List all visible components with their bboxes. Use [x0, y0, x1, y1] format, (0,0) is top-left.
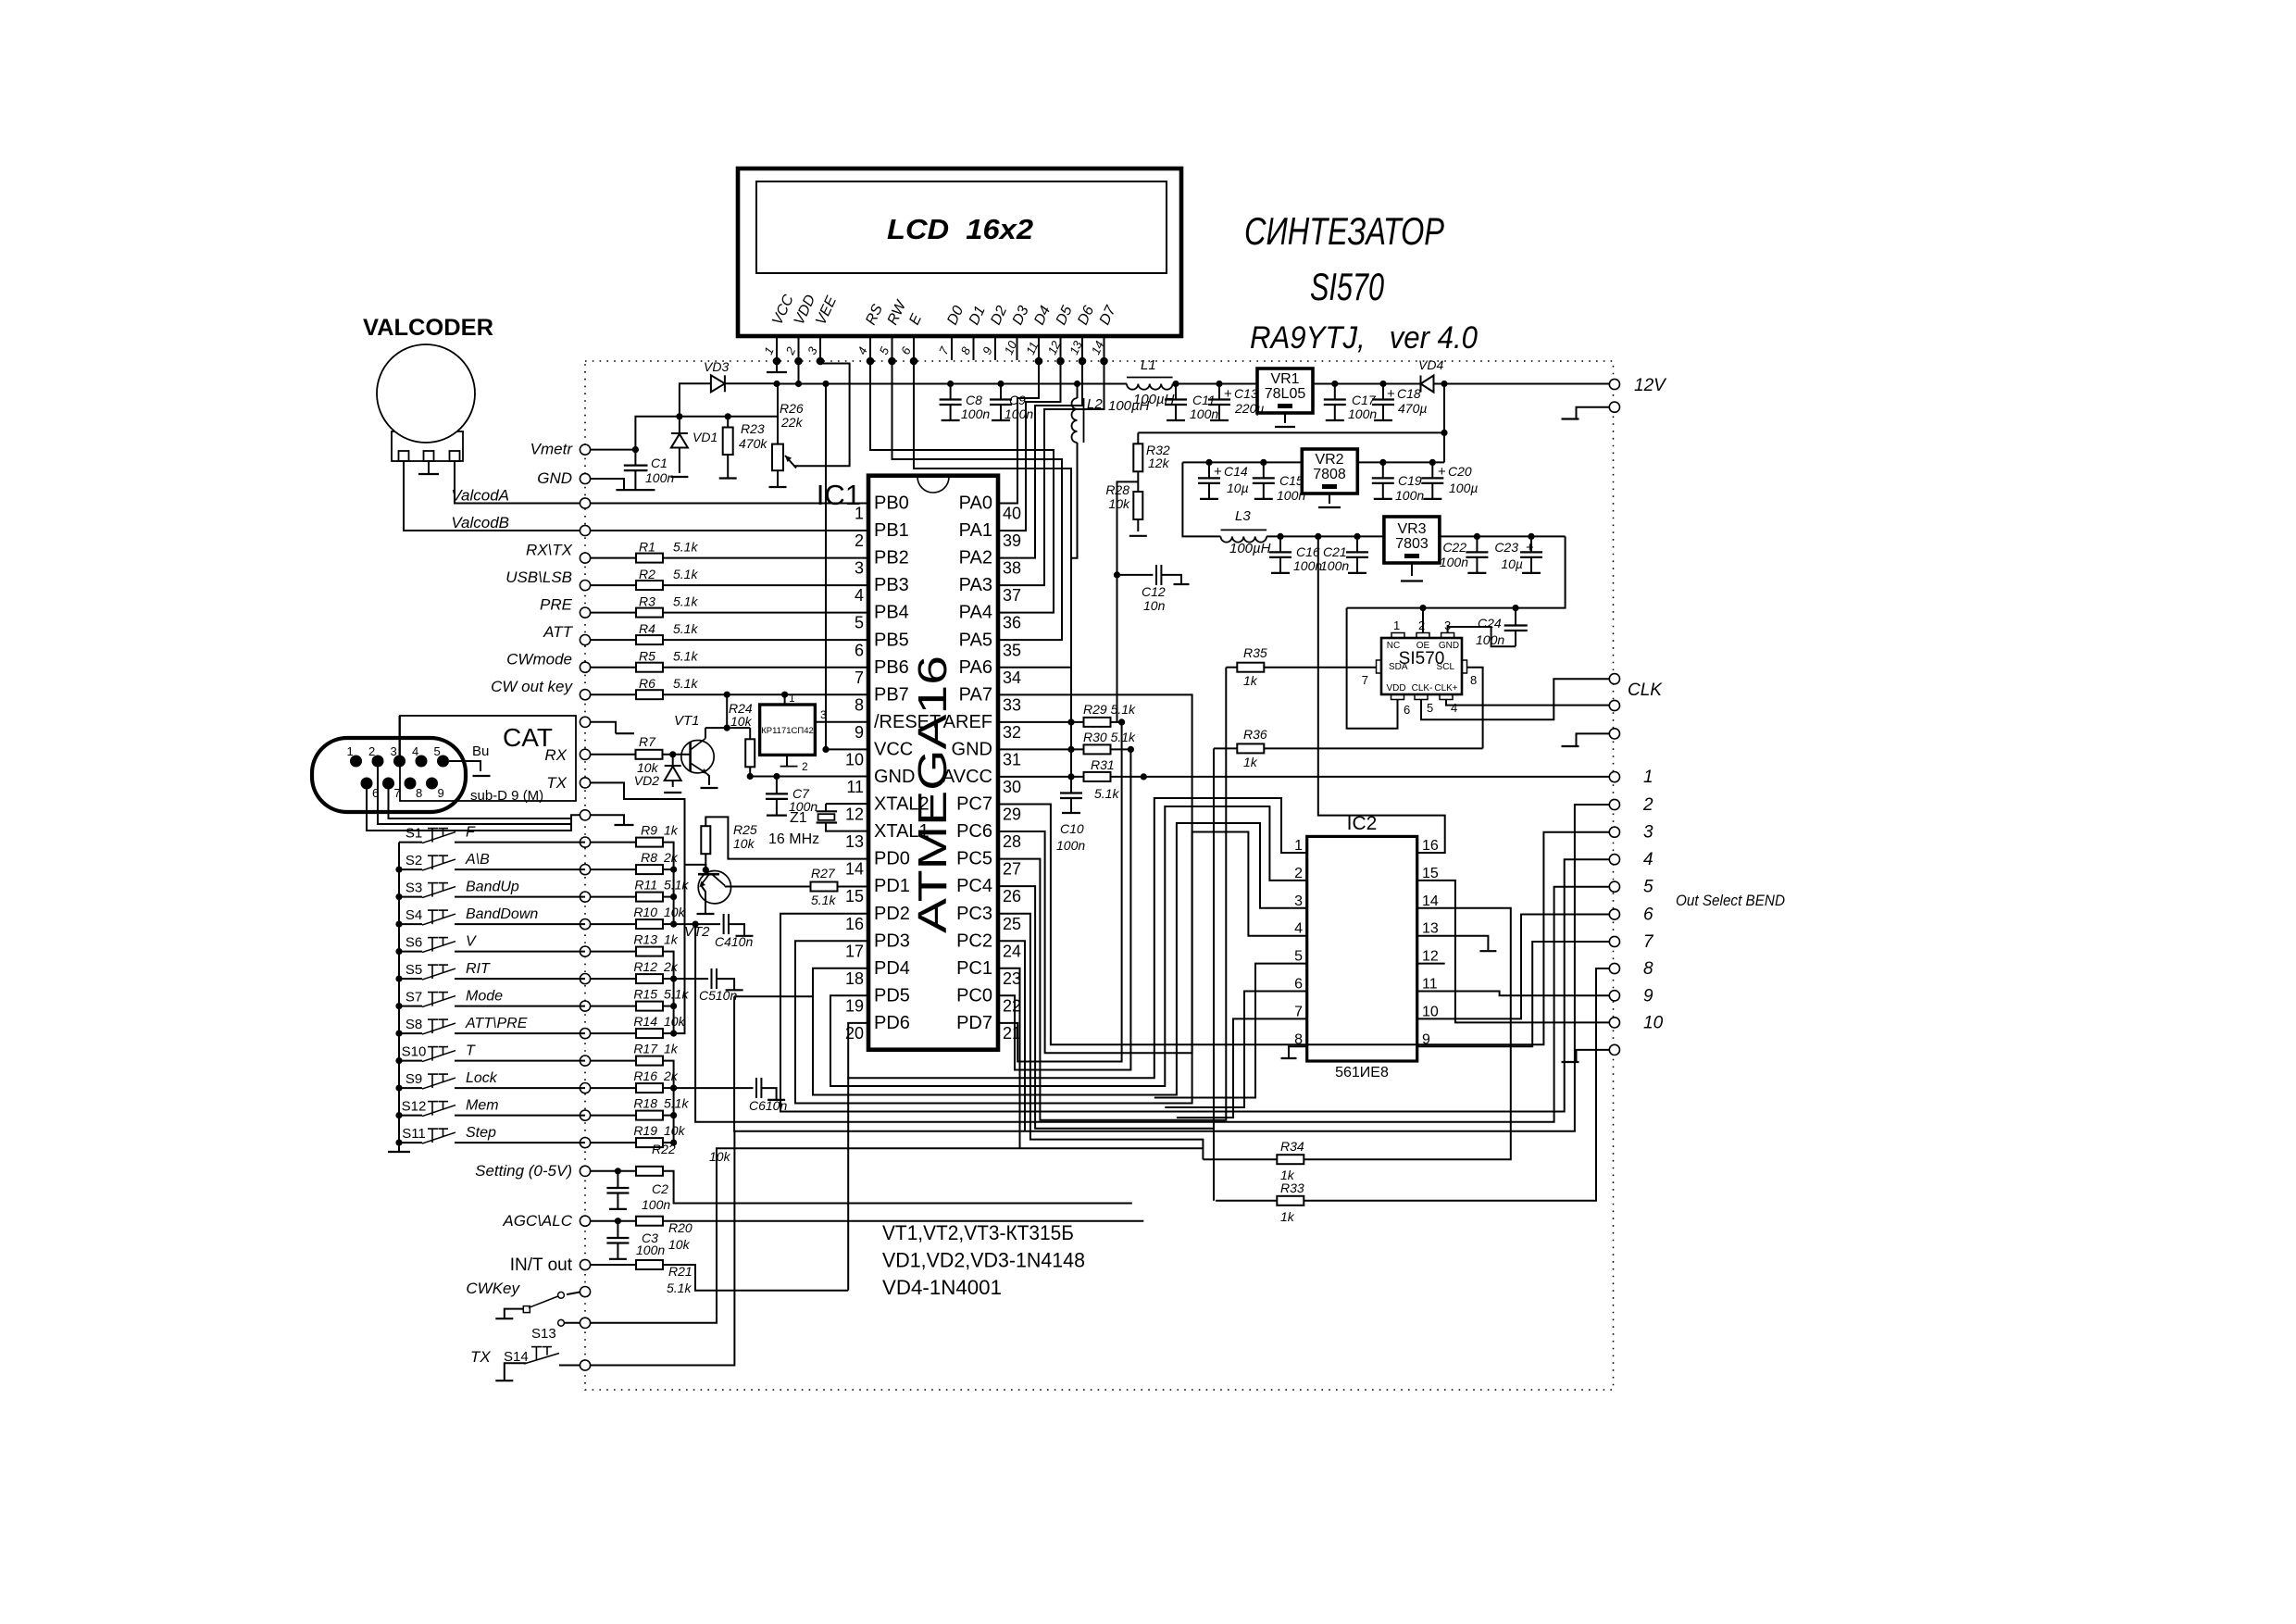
svg-text:S9: S9: [406, 1071, 422, 1087]
terminal 880 ground: [591, 815, 624, 825]
SI570 SCL pin8 wire: [1467, 668, 1483, 749]
svg-text:10µ: 10µ: [1501, 556, 1523, 571]
transistor VT1: [681, 741, 714, 773]
resistor R5 5.1k: [591, 667, 636, 668]
svg-text:R3: R3: [639, 594, 655, 609]
svg-text:VD4-1N4001: VD4-1N4001: [882, 1276, 1002, 1299]
resistor R16 2k: [591, 1087, 636, 1089]
svg-text:13: 13: [845, 832, 864, 851]
svg-text:PD3: PD3: [874, 931, 910, 951]
svg-text:R5: R5: [639, 649, 655, 664]
wire GND terminal to C1 ground: [591, 479, 624, 490]
wire +5 to IC1 VCC pin10: [826, 384, 868, 750]
svg-text:2: 2: [1642, 795, 1653, 815]
keyboard bus segment 2: [663, 952, 674, 1034]
svg-text:LCD 16x2: LCD 16x2: [887, 213, 1033, 245]
SI570 pin stubs: [1391, 633, 1404, 639]
svg-text:15: 15: [1422, 866, 1439, 881]
capacitor C18 470u electrolytic: [1382, 384, 1384, 400]
L3 output rail: [1267, 535, 1384, 537]
wire LCD D7 to PA3: [998, 361, 1104, 585]
svg-text:3: 3: [855, 559, 864, 578]
svg-text:S2: S2: [406, 853, 422, 868]
wire PD7 to R29 band: [998, 722, 1122, 1062]
svg-text:R29 5.1k: R29 5.1k: [1083, 702, 1136, 717]
svg-text:S6: S6: [406, 935, 422, 951]
wire PC0 to R30 band: [998, 749, 1130, 1069]
VR2 input rail: [1182, 461, 1302, 463]
svg-text:R13: R13: [633, 932, 657, 947]
capacitor C14 10u electrolytic: [1208, 462, 1210, 478]
SI570 OE to rail: [1422, 608, 1424, 633]
svg-text:2: 2: [368, 744, 375, 758]
svg-text:100n: 100n: [1395, 488, 1424, 503]
keyboard bus segment 3: [663, 1061, 674, 1143]
svg-text:5: 5: [434, 744, 441, 758]
svg-text:3: 3: [391, 744, 397, 758]
SI570 GND pin3 wire: [1448, 627, 1516, 646]
resistor R12 2k: [591, 978, 636, 980]
svg-text:VCC: VCC: [874, 739, 913, 759]
svg-text:S1: S1: [406, 826, 422, 842]
svg-text:100n: 100n: [636, 1243, 665, 1257]
svg-text:9: 9: [855, 723, 864, 742]
IC2 pin16 power wire: [1318, 536, 1445, 853]
svg-text:1k: 1k: [664, 1042, 679, 1056]
terminal 9: [1609, 991, 1619, 1001]
svg-text:100n: 100n: [1190, 406, 1218, 421]
svg-text:R12: R12: [633, 959, 657, 974]
wire PA7 to nest: [998, 694, 1192, 1053]
svg-text:100µH: 100µH: [1108, 398, 1150, 414]
switch bus ground: [388, 1151, 410, 1153]
svg-text:100n: 100n: [1348, 406, 1377, 421]
svg-text:PD0: PD0: [874, 849, 910, 869]
resistor R30 5.1k: [998, 748, 1084, 750]
svg-text:7: 7: [855, 668, 864, 687]
svg-text:R9: R9: [641, 823, 657, 838]
crystal Z1 16 MHz: [826, 803, 868, 805]
svg-text:R18: R18: [633, 1096, 657, 1111]
IC2 pin12 stub: [1417, 963, 1445, 965]
svg-text:AGC\ALC: AGC\ALC: [502, 1212, 572, 1230]
svg-text:100n: 100n: [1320, 558, 1349, 573]
svg-text:/RESET: /RESET: [874, 712, 941, 732]
svg-text:PB0: PB0: [874, 493, 909, 514]
svg-text:ValcodB: ValcodB: [451, 514, 509, 531]
capacitor C16 100n: [1279, 536, 1281, 552]
IC2 pin13 ground: [1417, 936, 1489, 950]
svg-text:C510n: C510n: [699, 988, 737, 1003]
svg-text:100n: 100n: [1004, 406, 1033, 421]
svg-text:PB4: PB4: [874, 603, 909, 623]
svg-text:TX: TX: [470, 1348, 491, 1366]
junction VT2 base: [703, 867, 709, 873]
svg-text:S8: S8: [406, 1017, 422, 1032]
capacitor C9 100n: [1000, 384, 1002, 400]
svg-text:3: 3: [1643, 823, 1653, 843]
wire TX band to terminal 2: [734, 995, 813, 997]
svg-text:PB6: PB6: [874, 657, 909, 678]
svg-text:10k: 10k: [709, 1149, 731, 1164]
wire LCD E to PA6: [914, 361, 1071, 668]
resistor R35 1k: [1226, 667, 1237, 668]
wire PD4 to IC2 pin3: [813, 823, 1307, 1095]
svg-text:Step: Step: [466, 1125, 496, 1141]
svg-text:PC0: PC0: [956, 985, 992, 1006]
capacitor C10 100n: [1070, 777, 1072, 793]
terminal 10: [1609, 1018, 1619, 1028]
svg-text:2k: 2k: [663, 959, 679, 974]
svg-text:PD4: PD4: [874, 958, 910, 979]
wire PD5 to IC2 pin2: [830, 806, 1307, 1086]
wire ValcodB to PB1: [591, 530, 868, 531]
KP1171 pin3 wire to /RESET: [815, 721, 868, 723]
svg-text:R7: R7: [639, 734, 656, 749]
terminal CLK lower: [1609, 700, 1619, 710]
svg-text:1: 1: [1393, 618, 1400, 632]
transistor VT2: [698, 871, 730, 904]
svg-text:C13: C13: [1234, 386, 1258, 401]
svg-text:100n: 100n: [961, 406, 990, 421]
svg-text:R36: R36: [1243, 727, 1267, 742]
wire PD3 to IC2 pin4: [795, 832, 1307, 1104]
wire keypad bus to terminal 5: [695, 887, 1609, 1122]
svg-text:34: 34: [1003, 668, 1021, 687]
svg-text:R22: R22: [652, 1142, 676, 1156]
svg-text:9: 9: [438, 786, 444, 800]
svg-text:XTAL2: XTAL2: [874, 794, 930, 815]
resistor R7 10k: [591, 754, 636, 756]
svg-text:R1: R1: [639, 540, 655, 555]
wire LCD RS to PA4: [870, 361, 1054, 613]
svg-text:12V: 12V: [1634, 376, 1667, 395]
SI570 VDD pin6 wire: [1347, 608, 1398, 729]
svg-text:10k: 10k: [733, 836, 755, 851]
svg-text:C8: C8: [966, 393, 982, 407]
svg-text:27: 27: [1003, 860, 1021, 879]
svg-text:100n: 100n: [642, 1197, 670, 1212]
voltage regulator VR3 7803: [1384, 517, 1440, 563]
inductor L2 100uH vertical: [1072, 398, 1078, 443]
terminal 1: [1609, 772, 1619, 782]
diode VD1: [679, 417, 680, 433]
svg-text:13: 13: [1422, 921, 1439, 937]
12V feed down: [1443, 384, 1445, 463]
svg-text:CLK+: CLK+: [1434, 683, 1457, 693]
svg-text:Lock: Lock: [466, 1070, 498, 1086]
terminal 780 ground: [591, 722, 616, 733]
svg-text:32: 32: [1003, 723, 1021, 742]
valcoder middle lug ground: [428, 461, 430, 474]
IC1 ATMEGA16 box: [868, 476, 998, 1050]
svg-text:USB\LSB: USB\LSB: [505, 568, 572, 586]
svg-text:S10: S10: [402, 1044, 427, 1060]
svg-text:10k: 10k: [664, 905, 686, 919]
svg-text:7: 7: [1294, 1004, 1303, 1019]
terminal CLK upper: [1609, 674, 1619, 684]
svg-text:4: 4: [1294, 921, 1303, 937]
svg-text:35: 35: [1003, 641, 1021, 659]
terminal 6: [1609, 909, 1619, 919]
svg-text:10k: 10k: [1108, 496, 1130, 511]
svg-text:C22: C22: [1442, 540, 1466, 555]
resistor R36 1k: [1214, 747, 1237, 749]
svg-text:PD2: PD2: [874, 904, 910, 924]
svg-text:1k: 1k: [664, 932, 679, 947]
svg-text:C20: C20: [1448, 464, 1472, 479]
svg-text:СИНТЕЗАТОР: СИНТЕЗАТОР: [1244, 209, 1444, 253]
svg-text:29: 29: [1003, 806, 1021, 824]
junction R7-VD2: [669, 751, 676, 757]
divider tap to AREF chain: [1117, 481, 1139, 722]
terminal 2: [1609, 799, 1619, 809]
svg-text:6: 6: [855, 641, 864, 659]
terminal 8: [1609, 963, 1619, 973]
svg-text:+: +: [1526, 540, 1534, 556]
wire VT1 collector rail: [705, 727, 750, 729]
svg-text:BandDown: BandDown: [466, 906, 538, 922]
resistor R3 5.1k: [591, 612, 636, 614]
resistor R10 10k: [591, 923, 636, 925]
svg-text:XTAL1: XTAL1: [874, 821, 930, 842]
wire valcoder left lug to ValcodB: [404, 461, 585, 531]
svg-text:SDA: SDA: [1389, 662, 1408, 672]
svg-text:40: 40: [1003, 505, 1021, 523]
svg-text:R35: R35: [1243, 645, 1267, 660]
R33 to terminal 8: [1304, 968, 1609, 1201]
wire PC3 band to R34: [998, 914, 1203, 1159]
rail after VR1: [1313, 383, 1421, 385]
wire LCD D5 to PA1: [998, 361, 1061, 531]
terminal 12V: [1609, 379, 1619, 389]
svg-text:38: 38: [1003, 559, 1021, 578]
svg-text:SCL: SCL: [1437, 662, 1455, 672]
wire LCD D4 to PA0: [998, 361, 1039, 504]
terminal ground below CLK: [1609, 729, 1619, 739]
keyboard row1 wire to C4: [674, 923, 696, 925]
svg-text:BandUp: BandUp: [466, 880, 519, 895]
svg-text:7: 7: [394, 786, 401, 800]
svg-text:VD4: VD4: [1418, 357, 1443, 372]
svg-text:100n: 100n: [645, 470, 674, 485]
svg-text:28: 28: [1003, 832, 1021, 851]
svg-text:VR3: VR3: [1397, 521, 1426, 537]
svg-text:5: 5: [1643, 878, 1653, 897]
svg-text:Vmetr: Vmetr: [530, 441, 574, 458]
svg-text:7: 7: [1643, 932, 1654, 952]
svg-text:24: 24: [1003, 942, 1021, 960]
DB9 pins row 1: [350, 756, 362, 768]
svg-text:100n: 100n: [1440, 555, 1468, 569]
DB9 pins row 2: [361, 778, 373, 790]
svg-text:2k: 2k: [663, 850, 679, 865]
svg-text:12k: 12k: [1148, 456, 1170, 470]
R34 to IC2 pin14: [1304, 908, 1511, 1159]
capacitor C15 100n: [1263, 462, 1265, 478]
capacitor C4 10n: [695, 923, 720, 925]
wire R26 feed: [728, 416, 778, 418]
svg-text:1k: 1k: [664, 823, 679, 838]
svg-text:+: +: [1438, 464, 1446, 480]
capacitor C24 100n: [1515, 608, 1516, 626]
svg-text:R16: R16: [633, 1068, 657, 1083]
KP1171 pin1 wire: [784, 694, 786, 705]
svg-text:GND: GND: [874, 767, 915, 787]
wire LCD VDD to +5 rail: [798, 361, 800, 384]
resistor R17 1k: [591, 1060, 636, 1062]
svg-text:14: 14: [845, 860, 864, 879]
svg-text:PB1: PB1: [874, 520, 909, 541]
svg-text:6: 6: [1294, 977, 1303, 993]
resistor R9 1k: [591, 842, 636, 843]
svg-text:VDD: VDD: [1386, 683, 1405, 693]
svg-text:16: 16: [845, 915, 864, 933]
svg-text:11: 11: [846, 778, 864, 796]
wire PC2 to TX band: [998, 941, 1025, 1131]
wire Vmetr node: [591, 449, 636, 451]
variable resistor R26 22k: [777, 384, 779, 444]
svg-text:S7: S7: [406, 990, 422, 1006]
resistor R18 5.1k: [591, 1115, 636, 1117]
capacitor C11 100n: [1175, 384, 1177, 400]
IC2 pin10 to terminal 6: [1417, 915, 1610, 1019]
wire valcoder right lug to ValcodA: [455, 461, 585, 504]
wire R23 branch: [680, 416, 728, 418]
wire to PB7 row: [726, 694, 728, 728]
svg-text:AVCC: AVCC: [942, 767, 992, 787]
wire bus2 to VT2 base: [674, 865, 706, 1033]
svg-text:470k: 470k: [739, 436, 767, 451]
IC2 pin15 to terminal 10: [1417, 881, 1610, 1023]
wire ValcodA to PB0: [591, 503, 868, 505]
wire PC4 band: [998, 886, 1214, 1129]
resistor R1 5.1k: [591, 557, 636, 559]
svg-text:PC3: PC3: [956, 904, 992, 924]
svg-text:PC6: PC6: [956, 821, 992, 842]
svg-text:PB3: PB3: [874, 575, 909, 595]
svg-text:3: 3: [1294, 893, 1303, 909]
svg-text:R2: R2: [639, 567, 655, 581]
svg-text:2: 2: [855, 531, 864, 550]
svg-text:VD3: VD3: [704, 359, 729, 374]
svg-text:11: 11: [1422, 977, 1438, 993]
3.3V rail to SI570: [1347, 536, 1566, 607]
svg-text:6: 6: [1643, 906, 1653, 925]
capacitor C2 100n: [617, 1171, 618, 1188]
svg-text:37: 37: [1003, 586, 1021, 605]
svg-text:1: 1: [347, 744, 354, 758]
R26 wiper arrow: [785, 456, 796, 468]
resistor R31 5.1k to terminal 1: [998, 776, 1084, 778]
capacitor C17 100n: [1334, 384, 1336, 400]
SI570 CLK- pin5 wire to CLK1: [1421, 679, 1609, 719]
svg-text:R10: R10: [633, 905, 657, 919]
valcoder body: [392, 431, 463, 461]
CAT connector box: [400, 716, 576, 801]
svg-text:1: 1: [855, 505, 864, 523]
IC2 pin11 to terminal 9: [1417, 992, 1610, 996]
inductor L3 100uH: [1221, 529, 1267, 531]
svg-text:10n: 10n: [1143, 598, 1166, 613]
svg-text:10k: 10k: [664, 1014, 686, 1029]
svg-text:R6: R6: [639, 676, 655, 691]
resistor R23 470k: [727, 417, 729, 428]
svg-text:8: 8: [1470, 673, 1477, 687]
svg-text:R34: R34: [1280, 1139, 1304, 1154]
svg-text:C16: C16: [1296, 544, 1320, 559]
svg-text:PA2: PA2: [959, 548, 992, 568]
wire R21 junction vertical: [847, 1078, 849, 1291]
DB9 connector outline: [312, 738, 466, 812]
svg-text:RA9YTJ, ver 4.0: RA9YTJ, ver 4.0: [1250, 320, 1478, 356]
resistor R22 10k: [591, 1170, 636, 1172]
rail after L1: [1173, 383, 1257, 385]
svg-text:Bu: Bu: [472, 743, 489, 759]
capacitor C12 10n: [1117, 574, 1154, 576]
svg-text:ValcodA: ValcodA: [451, 487, 509, 505]
resistor R29 5.1k with AREF: [998, 721, 1084, 723]
svg-text:VT1,VT2,VT3-КТ315Б: VT1,VT2,VT3-КТ315Б: [882, 1221, 1074, 1244]
svg-text:R11: R11: [634, 878, 657, 893]
svg-text:C2: C2: [652, 1181, 668, 1196]
svg-text:VD1: VD1: [693, 430, 717, 444]
wire IC2 pin5: [1154, 964, 1307, 1098]
IC KP1171CP42 reset supervisor: [760, 705, 816, 755]
wire PC1 band: [998, 968, 1020, 1148]
svg-text:OE: OE: [1416, 641, 1430, 651]
svg-text:1k: 1k: [1243, 755, 1258, 769]
svg-text:NC: NC: [1387, 641, 1400, 651]
svg-text:PC1: PC1: [956, 958, 992, 979]
IC2 pin9 to terminal 7: [1417, 942, 1610, 1046]
svg-text:23: 23: [1003, 969, 1021, 988]
wire IC2 pin6: [1165, 992, 1306, 1108]
wire LCD RW to PA5: [892, 361, 1063, 640]
svg-text:CWKey: CWKey: [466, 1280, 520, 1297]
svg-text:AREF: AREF: [943, 712, 992, 732]
svg-text:R31: R31: [1091, 757, 1115, 772]
svg-text:10k: 10k: [664, 1123, 686, 1138]
capacitor C13 220u electrolytic: [1218, 384, 1220, 400]
voltage regulator VR1 78L05: [1257, 369, 1313, 413]
svg-text:C410n: C410n: [715, 934, 753, 949]
capacitor C19 100n: [1382, 462, 1384, 478]
svg-text:PC7: PC7: [956, 794, 992, 815]
svg-text:R20: R20: [668, 1220, 693, 1235]
diode VD2: [672, 755, 674, 766]
svg-text:5.1k: 5.1k: [664, 1096, 689, 1111]
svg-text:4: 4: [1451, 701, 1457, 715]
svg-text:2k: 2k: [663, 1068, 679, 1083]
wire PC5 to R35 band: [998, 668, 1226, 1120]
svg-text:CLK-: CLK-: [1412, 683, 1433, 693]
svg-text:+: +: [1387, 386, 1395, 402]
wire S13 lower to nest: [591, 1316, 717, 1323]
svg-text:C18: C18: [1397, 386, 1421, 401]
resistor R19 10k: [591, 1142, 636, 1143]
svg-text:16: 16: [1422, 838, 1439, 854]
IC2 561IE8 box: [1307, 836, 1417, 1061]
svg-text:PC4: PC4: [956, 876, 992, 896]
resistor R32 12k: [1137, 432, 1139, 443]
resistor R8 2k: [591, 868, 636, 870]
ground for LCD pin1 VCC: [776, 361, 778, 372]
svg-text:10µ: 10µ: [1227, 481, 1249, 495]
switch common bus: [398, 843, 400, 1152]
wire TX terminal to nest: [591, 1131, 735, 1366]
keyboard bus segment 1: [663, 843, 674, 925]
